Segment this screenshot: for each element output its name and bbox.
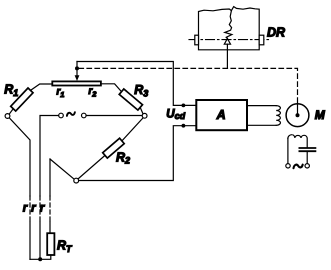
DR center dash-dot line — [189, 39, 269, 41]
motor reference winding — [288, 135, 307, 147]
wire reference winding left leg — [287, 139, 289, 164]
wire amplifier bottom output to control winding — [248, 124, 277, 126]
motor control winding — [276, 106, 280, 126]
resistor R3 — [119, 89, 142, 110]
node b — [142, 113, 147, 118]
node d — [74, 178, 79, 183]
junction dot amplifier bottom input — [182, 124, 186, 128]
wire lead 3 peak to node d — [50, 159, 74, 179]
wire from potentiometer right end to resistor R3 — [101, 84, 122, 92]
lead 1 dashed section — [29, 196, 31, 222]
svg-text:M: M — [315, 108, 326, 122]
DR right trunnion — [259, 35, 264, 45]
AC tilde at bridge — [67, 112, 75, 116]
node a — [5, 114, 10, 119]
DR crack arrowhead — [224, 39, 230, 45]
wire from R3 to node b — [140, 107, 143, 113]
wire capacitor to AC terminal — [306, 151, 308, 163]
wire RT bottom to leads — [30, 255, 51, 259]
capacitor top plate — [299, 147, 315, 149]
motor shaft line — [297, 103, 299, 115]
potentiometer wiper arm — [76, 62, 78, 77]
wire node a down to lead 1 — [9, 118, 30, 196]
AC terminal left — [59, 113, 64, 118]
junction dot lead 2 bottom — [38, 257, 42, 261]
wire from node a to resistor R1 — [9, 109, 13, 115]
wire node d to amplifier bottom input — [78, 126, 196, 181]
lead 3 upper solid section — [49, 159, 51, 196]
wire amplifier top output to control winding — [248, 105, 277, 107]
dashed mechanical link from wiper to motor — [79, 68, 298, 103]
wiper arrowhead — [75, 75, 80, 81]
svg-text:DR: DR — [267, 26, 285, 40]
wire R2 to node b — [122, 118, 143, 141]
AC terminal bottom left — [286, 164, 290, 168]
resistor R1 — [11, 88, 33, 111]
wire node d to resistor R2 — [78, 155, 105, 179]
wire from R1 to potentiometer left end — [31, 84, 53, 90]
svg-text:A: A — [216, 108, 226, 122]
svg-text:r: r — [40, 203, 45, 215]
resistor R2 — [103, 138, 125, 158]
amplifier U1 box A — [196, 100, 247, 130]
svg-text:r: r — [31, 203, 36, 215]
junction dot at wiper — [75, 66, 79, 70]
capacitor bottom plate — [299, 150, 315, 152]
DR left trunnion — [195, 35, 199, 45]
lead 3 lower solid section — [49, 222, 51, 233]
svg-text:r: r — [23, 203, 28, 215]
AC terminal right — [82, 113, 87, 118]
lead 2 lower solid section — [39, 222, 41, 259]
wire wiper to amplifier top input — [77, 62, 196, 106]
wire AC terminal to lead 2 — [40, 116, 59, 197]
lead 3 dashed section — [49, 196, 51, 222]
DR drum body — [199, 7, 260, 50]
resistor RT — [47, 233, 54, 255]
lead 2 dashed section — [39, 196, 41, 222]
wire DR to mechanical link — [226, 44, 228, 68]
AC source symbol wire to node b — [86, 115, 142, 117]
DR crack — [225, 11, 232, 39]
svg-text:Ucd: Ucd — [166, 109, 185, 121]
AC tilde at motor supply — [294, 165, 303, 169]
potentiometer r1 r2 — [52, 81, 101, 85]
motor M — [286, 104, 309, 127]
lead 1 lower solid section — [29, 222, 31, 259]
motor center dot — [296, 113, 300, 117]
junction dot amplifier top input — [182, 104, 186, 108]
AC terminal bottom right — [305, 164, 309, 168]
